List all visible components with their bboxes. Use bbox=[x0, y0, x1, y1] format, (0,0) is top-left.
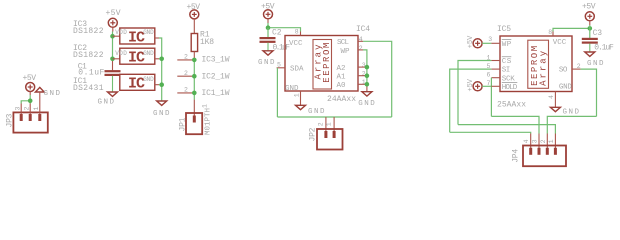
pin VCC IC5 + wire bbox=[553, 28, 590, 36]
label IC2 bbox=[73, 44, 104, 60]
junction dot VDD IC3 bbox=[110, 34, 115, 39]
svg-text:3: 3 bbox=[488, 36, 492, 43]
svg-text:+5V: +5V bbox=[106, 9, 121, 18]
svg-text:1: 1 bbox=[487, 54, 491, 61]
pin SI IC5 + wire bbox=[450, 69, 500, 132]
pin number 1 (JP1) bbox=[202, 104, 209, 108]
svg-text:A1: A1 bbox=[337, 74, 346, 82]
label IC3 bbox=[73, 20, 104, 36]
svg-text:HOLD: HOLD bbox=[502, 84, 518, 92]
pin SO IC5 + wire bbox=[572, 69, 597, 116]
label IC4 bbox=[356, 25, 370, 34]
ground symbol (sensor bus) bbox=[153, 101, 170, 118]
wire stub IC3_1W bbox=[177, 59, 194, 61]
label 24AAxx bbox=[327, 95, 356, 104]
ground symbol (C1) bbox=[98, 92, 118, 107]
pin A0 IC4 bbox=[358, 83, 367, 85]
svg-text:SDA: SDA bbox=[290, 66, 304, 74]
svg-text:+5V: +5V bbox=[23, 74, 37, 83]
junction dot VDD IC2 bbox=[110, 57, 115, 62]
svg-text:IC4: IC4 bbox=[356, 25, 370, 34]
svg-text:GND: GND bbox=[98, 99, 115, 107]
svg-text:JP3: JP3 bbox=[6, 113, 15, 127]
svg-text:DS1822: DS1822 bbox=[73, 27, 104, 36]
svg-text:4: 4 bbox=[523, 139, 530, 143]
svg-text:GND: GND bbox=[258, 59, 275, 67]
svg-text:GND: GND bbox=[153, 110, 170, 118]
pin number 4 (IC4 SCL) bbox=[359, 36, 363, 43]
pin A1 IC4 bbox=[358, 75, 367, 77]
junction dot A2 bbox=[365, 65, 370, 70]
pin GND IC3 bbox=[155, 37, 159, 39]
svg-text:IC2_1W: IC2_1W bbox=[202, 72, 230, 81]
IC1 eeprom box bbox=[120, 74, 155, 92]
svg-text:GND: GND bbox=[44, 90, 61, 98]
supply +5V (IC5 WP) bbox=[467, 35, 482, 48]
svg-text:1: 1 bbox=[33, 107, 40, 111]
resistor R1 bbox=[191, 31, 214, 60]
svg-text:Array: Array bbox=[538, 50, 548, 86]
svg-text:CS: CS bbox=[502, 58, 512, 66]
label C1 / value bbox=[78, 62, 105, 77]
svg-text:2: 2 bbox=[577, 63, 581, 70]
svg-text:2: 2 bbox=[540, 139, 547, 143]
svg-text:4: 4 bbox=[548, 95, 555, 99]
pin number 7 (IC5 HOLD) bbox=[487, 80, 491, 87]
svg-text:3: 3 bbox=[532, 139, 539, 143]
svg-text:25AAxx: 25AAxx bbox=[497, 100, 526, 109]
svg-text:GND: GND bbox=[285, 85, 299, 93]
junction dot at JP3 pin2 riser bbox=[28, 99, 33, 104]
pin number 2 (IC4 A1) bbox=[362, 70, 366, 77]
junction dot GND IC1 bbox=[159, 82, 164, 87]
svg-text:C2: C2 bbox=[272, 29, 282, 38]
svg-text:7: 7 bbox=[487, 80, 491, 87]
svg-text:IC5: IC5 bbox=[497, 25, 511, 34]
pin VDD IC2 bbox=[113, 58, 120, 60]
svg-text:6: 6 bbox=[487, 72, 491, 79]
pin VCC IC4 bbox=[300, 32, 302, 36]
pin number 1 (IC4 A0) bbox=[362, 79, 366, 86]
svg-text:GND: GND bbox=[143, 50, 154, 57]
svg-text:8: 8 bbox=[548, 29, 552, 36]
pin GND IC2 bbox=[155, 58, 159, 60]
pin number 2 (JP4) bbox=[540, 139, 547, 143]
label M01PTH bbox=[205, 108, 213, 135]
svg-text:1: 1 bbox=[293, 93, 300, 97]
svg-text:GND: GND bbox=[587, 60, 604, 68]
svg-text:DS1822: DS1822 bbox=[73, 51, 104, 60]
svg-text:EEPROM: EEPROM bbox=[322, 43, 332, 83]
svg-text:0.1uF: 0.1uF bbox=[594, 44, 614, 53]
label JP3 bbox=[6, 113, 15, 127]
svg-text:IC3_1W: IC3_1W bbox=[202, 56, 230, 65]
supply +5V (C3) bbox=[582, 2, 596, 25]
pin GND IC4 down bbox=[300, 91, 302, 105]
wire SO to JP4 pin2 bbox=[547, 116, 596, 133]
svg-text:GND: GND bbox=[143, 29, 154, 36]
wire stub IC2_1W bbox=[177, 75, 194, 77]
pin number 3 (JP3) bbox=[15, 107, 22, 111]
svg-text:VCC: VCC bbox=[289, 40, 303, 48]
pin number 2 (IC5 SO) bbox=[577, 63, 581, 70]
junction dot A1 bbox=[365, 73, 370, 78]
label JP4 bbox=[511, 149, 520, 163]
pin VDD IC3 bbox=[113, 35, 120, 37]
svg-text:1: 1 bbox=[326, 122, 333, 126]
svg-text:DS2431: DS2431 bbox=[73, 84, 104, 93]
pin number 4 (IC5 GND) bbox=[548, 95, 555, 99]
wire junction to JP3 pin 3 bbox=[21, 101, 30, 104]
svg-text:JP4: JP4 bbox=[511, 149, 520, 163]
wire +5V bus (VDD) bbox=[112, 32, 114, 71]
svg-text:4: 4 bbox=[359, 36, 363, 43]
svg-text:A2: A2 bbox=[337, 65, 346, 73]
wire GND bus (right) bbox=[159, 38, 162, 101]
capacitor C3 bbox=[582, 25, 614, 53]
supply +5V (IC4) bbox=[261, 3, 275, 24]
wire +5V to WP bbox=[482, 42, 491, 44]
pin number 5 (IC5 SI) bbox=[487, 63, 491, 70]
supply +5V (IC5 HOLD) bbox=[467, 78, 482, 91]
wire 1W bus bbox=[193, 60, 195, 100]
svg-text:JP1: JP1 bbox=[179, 117, 188, 131]
svg-text:3: 3 bbox=[15, 107, 22, 111]
junction dot IC2_1W bbox=[192, 74, 197, 79]
pin number 6 (IC5 SCK) bbox=[487, 72, 491, 79]
pin number 1 (JP4) bbox=[548, 139, 555, 143]
svg-text:24AAxx: 24AAxx bbox=[327, 95, 356, 104]
pin GND IC1 bbox=[155, 84, 159, 86]
pin number 5 (IC4 SDA) bbox=[277, 61, 281, 68]
pin number 2 (IC2_1W) bbox=[184, 70, 188, 77]
svg-text:2: 2 bbox=[184, 70, 188, 77]
connector JP2 bbox=[317, 129, 343, 150]
wire +5V to JP3 pin 2 bbox=[29, 95, 31, 104]
svg-text:VDD: VDD bbox=[115, 50, 127, 57]
pin number 4 (JP4) bbox=[523, 139, 530, 143]
label JP2 bbox=[308, 127, 317, 141]
svg-text:M01PTH: M01PTH bbox=[205, 108, 213, 135]
svg-text:GND: GND bbox=[308, 108, 325, 116]
pin A2 IC4 bbox=[358, 66, 367, 68]
ground symbol (IC5 GND) bbox=[550, 107, 579, 116]
svg-text:WP: WP bbox=[341, 48, 350, 56]
svg-text:VDD: VDD bbox=[115, 29, 127, 36]
junction dot A0 bbox=[365, 82, 370, 87]
ground symbol (IC4 GND) bbox=[296, 105, 325, 116]
capacitor C2 bbox=[260, 28, 291, 53]
svg-text:8: 8 bbox=[295, 28, 299, 35]
junction dot +5V/C3 bbox=[588, 26, 593, 31]
svg-text:SCL: SCL bbox=[337, 39, 349, 47]
pin number 8 (IC5 VCC) bbox=[548, 29, 552, 36]
pin number 3 (IC4 A2) bbox=[362, 62, 366, 69]
ground symbol (C3) bbox=[585, 52, 604, 68]
wire CS to JP4 pin1 bbox=[458, 125, 555, 134]
svg-text:2: 2 bbox=[317, 122, 324, 126]
svg-text:GND: GND bbox=[358, 100, 375, 108]
svg-text:2: 2 bbox=[359, 45, 363, 52]
capacitor C1 bbox=[105, 70, 121, 92]
svg-text:WP: WP bbox=[502, 41, 512, 49]
pin number 1 (JP3) bbox=[33, 107, 40, 111]
svg-text:2: 2 bbox=[184, 54, 188, 61]
svg-text:1: 1 bbox=[548, 139, 555, 143]
svg-text:1K8: 1K8 bbox=[200, 38, 214, 47]
pin number 2 (IC1_1W) bbox=[184, 87, 188, 94]
pin number 2 (IC3_1W) bbox=[184, 54, 188, 61]
junction dot GND IC2 bbox=[159, 57, 164, 62]
junction dot R1/IC3_1W bbox=[192, 58, 197, 63]
svg-text:2: 2 bbox=[24, 107, 31, 111]
wire stub IC1_1W bbox=[177, 92, 194, 94]
wire A-pins to ground bbox=[366, 67, 368, 92]
label JP1 bbox=[179, 117, 188, 131]
pin number 3 (JP4) bbox=[532, 139, 539, 143]
junction dot IC1_1W bbox=[192, 91, 197, 96]
svg-text:SI: SI bbox=[502, 67, 511, 75]
connector JP4 bbox=[523, 134, 566, 167]
svg-text:+5V: +5V bbox=[582, 2, 596, 11]
svg-text:JP2: JP2 bbox=[308, 127, 317, 141]
connector JP3 bbox=[13, 104, 47, 133]
wire SCK to JP4 pin3 bbox=[491, 116, 539, 133]
pin SCL IC4 + wire bbox=[358, 41, 392, 117]
svg-text:A0: A0 bbox=[337, 82, 346, 90]
supply +5V (JP3) bbox=[23, 74, 37, 95]
pin WP IC4 + wire down bbox=[358, 50, 367, 67]
pin SDA IC4 + wire down bbox=[277, 68, 285, 117]
net label IC1_1W bbox=[202, 89, 230, 98]
pin GND IC5 down bbox=[554, 92, 556, 108]
pin number 2 (IC4 WP) bbox=[359, 45, 363, 52]
svg-text:2: 2 bbox=[184, 87, 188, 94]
pin number 1 (IC5 CS) bbox=[487, 54, 491, 61]
label 25AAxx bbox=[497, 100, 526, 109]
connector JP1 bbox=[186, 100, 202, 135]
pin number 8 (IC4 VCC) bbox=[295, 28, 299, 35]
svg-text:IC1_1W: IC1_1W bbox=[202, 89, 230, 98]
svg-text:SO: SO bbox=[559, 66, 568, 74]
svg-text:GND: GND bbox=[563, 109, 580, 117]
pin number 1 (JP2) bbox=[326, 122, 333, 126]
pin WP IC5 bbox=[491, 42, 500, 44]
pin number 2 (JP3) bbox=[24, 107, 31, 111]
supply +5V (sensors) bbox=[106, 9, 121, 32]
IC5 box bbox=[500, 36, 572, 92]
op-amp IC4 box bbox=[285, 36, 358, 93]
svg-text:GND: GND bbox=[143, 76, 154, 83]
pin SCK IC5 + wire down bbox=[491, 78, 500, 117]
label IC5 bbox=[497, 25, 511, 34]
wire +5V to VCC bbox=[268, 23, 301, 32]
pin CS IC5 + wire bbox=[458, 61, 500, 125]
pin HOLD IC5 bbox=[491, 85, 500, 87]
ground symbol (C2) bbox=[258, 51, 275, 67]
IC2 sensor box bbox=[115, 48, 155, 66]
wire +5V to HOLD bbox=[482, 85, 491, 87]
supply +5V (R1) bbox=[187, 3, 201, 34]
net label IC3_1W bbox=[202, 56, 230, 65]
ground symbol (JP3, pointing up) bbox=[35, 87, 60, 103]
wire SI to JP4 pin4 bbox=[450, 132, 531, 133]
svg-text:VCC: VCC bbox=[553, 39, 567, 47]
junction dot +5V/C2 bbox=[266, 25, 271, 30]
pin number 2 (JP2) bbox=[317, 122, 324, 126]
wire SDA/SCL rail bbox=[277, 117, 391, 131]
net label IC2_1W bbox=[202, 72, 230, 81]
svg-text:5: 5 bbox=[487, 63, 491, 70]
svg-text:1: 1 bbox=[202, 104, 209, 108]
pin number 3 (IC5 WP) bbox=[488, 36, 492, 43]
svg-text:GND: GND bbox=[559, 84, 572, 92]
IC3 sensor box bbox=[115, 28, 155, 46]
svg-text:0.1uF: 0.1uF bbox=[273, 44, 291, 53]
pin number 1 (IC4 GND) bbox=[293, 93, 300, 97]
svg-text:C3: C3 bbox=[593, 29, 603, 38]
label IC1 bbox=[73, 77, 104, 93]
ground symbol (IC4 A-pins) bbox=[358, 92, 375, 108]
